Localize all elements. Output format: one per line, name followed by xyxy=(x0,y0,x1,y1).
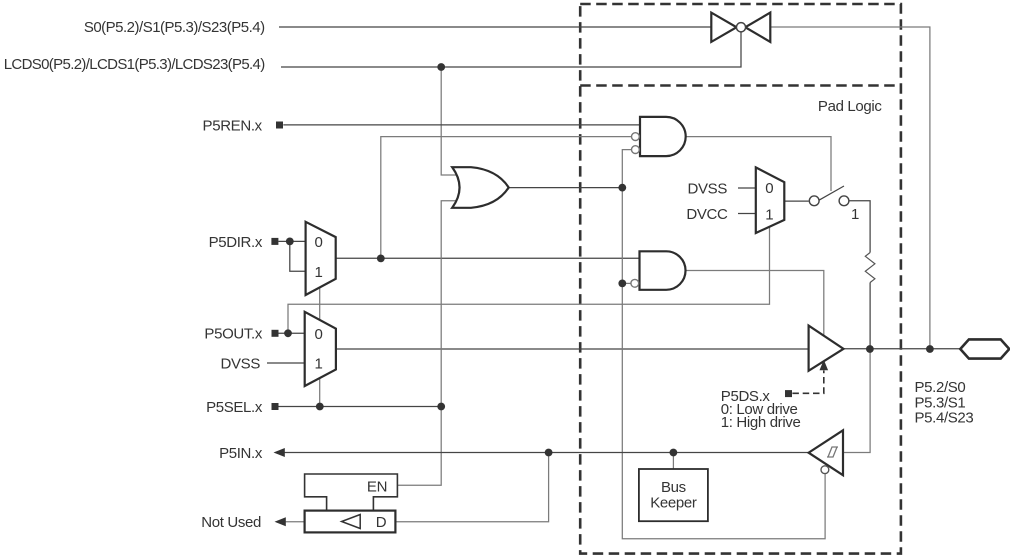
pad logic dashed boundary box xyxy=(580,4,901,554)
node NAND U2 input junction xyxy=(618,280,626,288)
wire P5REN.x to NAND U1 input 1 xyxy=(283,124,640,126)
wire P5IN.x from input buffer xyxy=(283,452,809,454)
bus keeper B1 xyxy=(639,469,708,521)
svg-text:P5.4/S23: P5.4/S23 xyxy=(915,410,974,427)
svg-text:1: 1 xyxy=(851,206,859,223)
svg-text:P5DIR.x: P5DIR.x xyxy=(209,234,263,251)
wire pad net to input buffer xyxy=(843,349,870,453)
svg-text:0: 0 xyxy=(315,234,323,251)
wire DVCC stub to mux M3 xyxy=(738,213,756,215)
pin square P5OUT xyxy=(272,330,279,337)
wire P5SEL to OR gate bottom input and latch EN xyxy=(397,201,456,486)
wire resistor to pad net xyxy=(869,283,871,350)
wire P5IN net to latch D input xyxy=(395,453,548,522)
wire P5DIR.x to mux M1 input 0 xyxy=(278,240,305,242)
pin square P5DIR xyxy=(271,238,278,245)
svg-text:EN: EN xyxy=(367,479,387,496)
mux M3 DVSS/DVCC xyxy=(756,167,785,233)
switch S1 xyxy=(809,186,849,206)
wire OR gate output xyxy=(509,187,623,189)
wire P5SEL riser to mux M1 select xyxy=(319,287,321,320)
svg-text:P5IN.x: P5IN.x xyxy=(219,445,263,462)
pin square P5REN xyxy=(276,122,283,129)
wire P5SEL riser to mux M2 select xyxy=(319,378,321,407)
svg-text:0: 0 xyxy=(315,326,323,343)
wire transmission gate output to pad column xyxy=(770,27,930,349)
svg-text:S0(P5.2)/S1(P5.3)/S23(P5.4): S0(P5.2)/S1(P5.3)/S23(P5.4) xyxy=(84,19,265,36)
wire LCDS input xyxy=(281,32,741,67)
svg-text:DVSS: DVSS xyxy=(688,180,728,197)
wire mux M2 output to output buffer input xyxy=(336,348,809,350)
wire P5OUT.x feedback to pull mux M3 select xyxy=(288,227,770,333)
svg-text:P5SEL.x: P5SEL.x xyxy=(206,399,263,416)
wire mux M1 output riser to NAND U1 input 2 xyxy=(381,137,632,259)
wire DVSS to mux M2 input 1 xyxy=(267,362,305,364)
svg-text:1: 1 xyxy=(315,356,323,373)
svg-text:LCDS0(P5.2)/LCDS1(P5.3)/LCDS23: LCDS0(P5.2)/LCDS1(P5.3)/LCDS23(P5.4) xyxy=(4,56,266,73)
node OR output junction xyxy=(618,184,626,192)
wire mux M3 output to switch xyxy=(784,200,809,202)
node P5SEL junction 1 xyxy=(316,403,324,411)
arrow Not Used xyxy=(275,517,286,526)
nand gate U2 xyxy=(631,251,686,289)
node P5SEL junction 2 xyxy=(437,403,445,411)
wire switch to resistor column xyxy=(849,201,870,253)
node P5DIR junction xyxy=(286,238,294,246)
svg-text:Pad Logic: Pad Logic xyxy=(818,98,882,115)
or gate U3 xyxy=(452,167,509,208)
pad hexagon xyxy=(960,339,1009,358)
node mux M1 output junction xyxy=(377,255,385,263)
node P5IN bus keeper junction xyxy=(670,449,678,457)
svg-text:DVSS: DVSS xyxy=(221,355,261,372)
transmission gate T1 xyxy=(711,13,770,42)
mux M2 P5OUT xyxy=(305,312,336,386)
node pad junction 1 xyxy=(866,345,874,353)
P5DS dashed control line xyxy=(792,360,828,394)
node pad junction 2 xyxy=(926,345,934,353)
wire latch output Not Used xyxy=(284,521,305,523)
wire S0 input xyxy=(279,26,711,28)
svg-text:1: High drive: 1: High drive xyxy=(721,414,801,431)
latch D box xyxy=(305,511,396,533)
pad logic dashed divider line xyxy=(580,84,901,87)
wire P5DIR.x to mux M1 input 1 xyxy=(290,241,306,271)
pin square P5SEL xyxy=(272,403,279,410)
wire DVSS stub to mux M3 xyxy=(738,187,756,189)
nand gate U1 xyxy=(632,117,686,156)
node P5IN latch junction xyxy=(545,449,553,457)
svg-text:P5REN.x: P5REN.x xyxy=(203,117,263,134)
wire output buffer to pad xyxy=(844,348,961,350)
wire OR net stub to NAND U2 input 2 xyxy=(622,282,631,284)
output buffer U4 xyxy=(809,326,844,371)
svg-text:0: 0 xyxy=(765,180,773,197)
node P5OUT junction xyxy=(284,329,292,337)
svg-text:Not Used: Not Used xyxy=(201,514,261,531)
wire NAND U2 output to output buffer enable xyxy=(686,271,824,336)
wire OR net vertical to NAND inputs and input buffer enable xyxy=(622,150,825,539)
wire LCDS junction to OR gate top input xyxy=(441,67,456,175)
wire NAND U1 output to switch xyxy=(686,137,832,191)
wire bus keeper to P5IN net xyxy=(672,453,674,470)
mux M1 P5DIR xyxy=(306,222,336,295)
arrow P5IN xyxy=(274,448,285,457)
svg-text:1: 1 xyxy=(315,264,323,281)
resistor R1 xyxy=(865,253,875,283)
latch EN box xyxy=(305,474,398,511)
pin square P5DS xyxy=(785,390,792,397)
node LCDS junction xyxy=(437,63,445,71)
input schmitt buffer U5 xyxy=(809,430,843,475)
svg-text:DVCC: DVCC xyxy=(686,206,728,223)
svg-text:Keeper: Keeper xyxy=(650,494,697,511)
svg-text:1: 1 xyxy=(765,206,773,223)
wire mux M1 output to NAND U2 input 1 xyxy=(336,257,640,259)
svg-text:D: D xyxy=(376,514,387,531)
wire P5SEL.x xyxy=(278,406,441,408)
svg-text:P5OUT.x: P5OUT.x xyxy=(204,326,262,343)
wire P5OUT.x to mux M2 input 0 xyxy=(278,332,305,334)
